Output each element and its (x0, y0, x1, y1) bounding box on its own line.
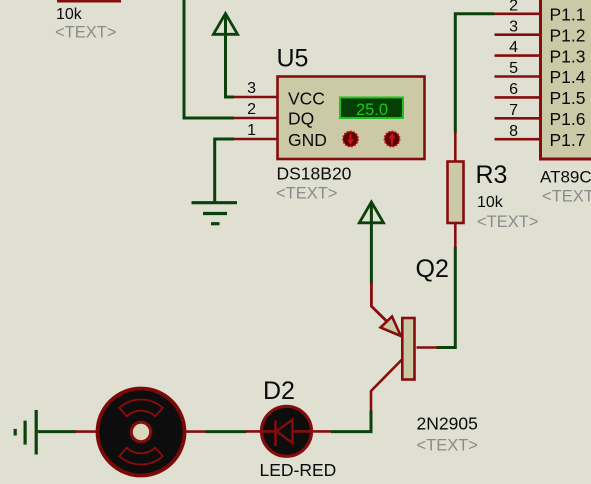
svg-text:10k: 10k (477, 194, 504, 211)
svg-text:VCC: VCC (288, 89, 325, 109)
svg-text:<TEXT>: <TEXT> (542, 188, 591, 206)
svg-text:2N2905: 2N2905 (417, 413, 478, 433)
svg-text:AT89C51: AT89C51 (540, 168, 591, 187)
svg-text:DS18B20: DS18B20 (277, 164, 352, 184)
svg-text:8: 8 (509, 123, 518, 140)
svg-text:3: 3 (247, 80, 256, 97)
svg-text:<TEXT>: <TEXT> (55, 24, 116, 42)
svg-text:3: 3 (509, 18, 518, 35)
svg-text:D2: D2 (263, 377, 295, 405)
svg-text:6: 6 (509, 81, 518, 98)
svg-text:<TEXT>: <TEXT> (417, 437, 478, 455)
svg-text:4: 4 (509, 39, 518, 56)
svg-text:P1.2: P1.2 (550, 25, 586, 45)
svg-text:2: 2 (509, 0, 518, 14)
svg-text:P1.1: P1.1 (550, 5, 586, 25)
svg-text:R3: R3 (476, 161, 508, 189)
svg-text:<TEXT>: <TEXT> (477, 213, 538, 231)
svg-text:2: 2 (247, 101, 256, 118)
svg-text:P1.3: P1.3 (550, 46, 586, 66)
svg-text:1: 1 (247, 122, 256, 139)
svg-text:10k: 10k (56, 6, 83, 23)
svg-text:7: 7 (509, 102, 518, 119)
svg-text:P1.4: P1.4 (550, 67, 586, 87)
svg-text:25.0: 25.0 (356, 101, 388, 119)
svg-text:P1.7: P1.7 (550, 130, 586, 150)
svg-text:LED-RED: LED-RED (260, 460, 337, 480)
svg-text:P1.6: P1.6 (550, 109, 586, 129)
svg-text:U5: U5 (277, 44, 309, 72)
svg-text:P1.5: P1.5 (550, 88, 586, 108)
svg-text:5: 5 (509, 60, 518, 77)
svg-text:DQ: DQ (288, 109, 314, 129)
svg-text:GND: GND (288, 130, 327, 150)
svg-text:Q2: Q2 (416, 255, 449, 283)
svg-text:<TEXT>: <TEXT> (276, 185, 337, 203)
